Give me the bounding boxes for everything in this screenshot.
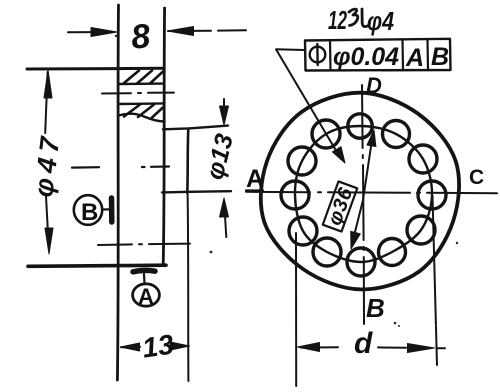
hatch band 2 bottom break line — [119, 114, 165, 122]
svg-text:φ0.04: φ0.04 — [333, 43, 399, 71]
bolt hole 4 (left) — [281, 181, 309, 209]
d dimension left arrow line — [301, 346, 338, 348]
svg-text:A: A — [246, 165, 264, 193]
dimension phi47 top arrowhead — [44, 70, 52, 98]
bolt hole 12 — [383, 121, 410, 148]
svg-text:B: B — [431, 43, 449, 71]
frame divider 2 — [401, 40, 404, 71]
dimension phi47 bottom arrowhead — [45, 228, 53, 254]
dimension 13 extension line right — [187, 194, 190, 381]
datum B leader — [103, 208, 111, 210]
flange left edge / extension line — [117, 5, 118, 380]
dimension 8 left arrow line — [68, 31, 114, 33]
scan specks — [115, 35, 458, 327]
svg-text:B: B — [81, 199, 98, 226]
bolt hole 5 — [289, 217, 317, 245]
dimension phi13 lower arrow line — [225, 216, 226, 237]
bolt hole 3 — [288, 147, 316, 175]
dimension 8 right arrow line — [168, 30, 211, 32]
hub top edge with right extension — [163, 126, 228, 130]
feature control frame box — [305, 39, 451, 71]
svg-text:φ47: φ47 — [28, 134, 65, 199]
flange top edge with left extension line — [27, 67, 164, 71]
datum B circle — [74, 195, 102, 225]
svg-text:13: 13 — [140, 329, 176, 364]
hatch band 2 strokes — [124, 105, 164, 118]
dimension 13 left arrow line — [121, 346, 140, 348]
d dimension left extension line — [295, 233, 297, 386]
bolt pitch circle — [295, 126, 432, 262]
d dimension tail — [437, 347, 445, 349]
svg-text:φ4: φ4 — [367, 6, 394, 36]
datum A contact bar — [133, 270, 155, 271]
datum B contact bar — [109, 198, 115, 222]
svg-text:A: A — [138, 284, 154, 309]
part axis centerline — [72, 167, 169, 168]
svg-text:d: d — [354, 327, 373, 360]
phi36 dimension line — [352, 133, 374, 246]
hub right edge — [187, 129, 188, 194]
hatch band 1 strokes — [124, 71, 163, 84]
hole bottom edge — [119, 102, 164, 105]
frame divider 1 — [329, 40, 332, 70]
note character kong — [349, 9, 370, 27]
d dimension right extension line — [433, 196, 438, 365]
flange right edge — [163, 8, 164, 265]
phi36 top arrowhead — [367, 130, 376, 147]
svg-text:B: B — [366, 293, 385, 323]
bolt hole 6 — [313, 238, 341, 266]
dimension phi47 line lower — [46, 196, 48, 230]
dimension phi13 upper arrow line — [223, 99, 225, 108]
datum A circle — [133, 284, 160, 306]
dimension phi13 lower arrowhead — [220, 198, 229, 217]
svg-text:φ13: φ13 — [201, 131, 239, 182]
frame divider 3 — [426, 39, 429, 70]
svg-text:D: D — [366, 73, 382, 98]
bolt hole top centerline — [102, 92, 174, 95]
dimension phi47 line upper — [45, 72, 47, 133]
position tolerance symbol — [310, 44, 326, 65]
hub bottom edge with right extension — [162, 191, 231, 192]
axis label A underline — [246, 189, 263, 191]
dimension 8 right arrowhead — [168, 27, 194, 36]
svg-text:12: 12 — [328, 5, 347, 35]
d dimension right arrowhead — [408, 344, 435, 353]
bolt hole 11 — [409, 145, 437, 173]
dimension 8 left arrowhead — [91, 28, 117, 37]
leader line from frame — [276, 49, 341, 159]
d dimension right arrow line — [378, 346, 406, 348]
svg-text:C: C — [469, 166, 484, 189]
phi36 bottom arrowhead — [351, 231, 361, 249]
d dimension left arrowhead — [298, 343, 320, 352]
vertical centerline D-B — [362, 85, 364, 324]
datum A stem — [143, 274, 146, 284]
bolt hole 8 — [379, 239, 406, 266]
bolt hole 9 — [407, 216, 435, 244]
bolt hole 7 (bottom) — [347, 248, 375, 276]
horizontal centerline A-C — [246, 192, 497, 193]
phi36 label box — [323, 181, 358, 231]
outer circle of flange face — [261, 93, 459, 290]
flange bottom edge with left extension — [28, 265, 166, 266]
bolt hole 1 (top) — [348, 114, 372, 138]
svg-text:φ36: φ36 — [324, 184, 358, 228]
dimension 13 right arrow line — [168, 345, 174, 347]
bolt hole 2 — [312, 120, 340, 148]
dimension phi13 upper arrowhead — [220, 106, 229, 125]
hatch band 1 bottom edge (hole top) — [119, 82, 164, 85]
dimension 13 right arrowhead — [171, 342, 190, 350]
dimension 13 left arrowhead — [121, 343, 140, 351]
svg-text:8: 8 — [129, 17, 152, 57]
leader arrowhead — [332, 147, 345, 163]
bottom bolt hole centerline — [98, 244, 190, 245]
bolt hole 10 (right) — [418, 181, 446, 209]
svg-text:A: A — [405, 44, 424, 72]
dimension 8 trailing dash — [218, 29, 246, 31]
